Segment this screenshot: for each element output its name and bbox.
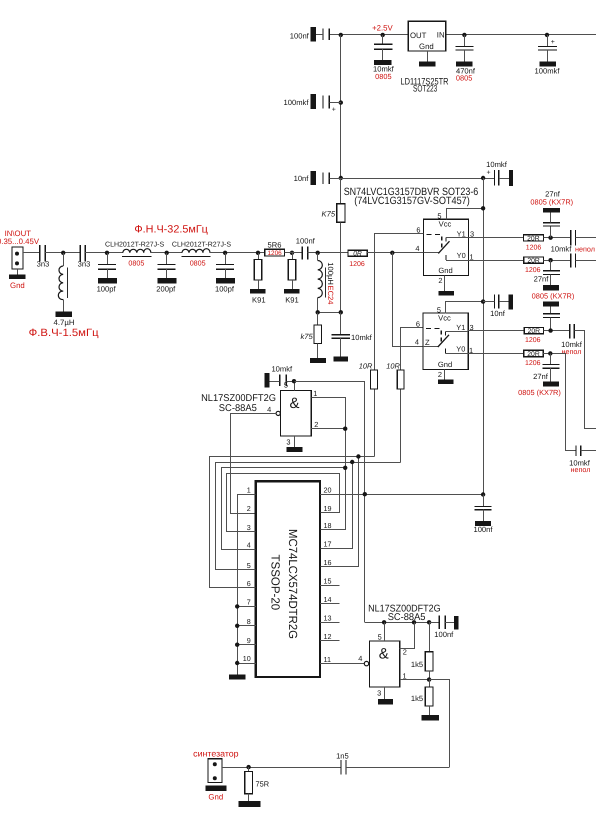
node 10nf C6 tap / Vcc rail2 [339, 176, 343, 180]
svg-text:Z: Z [425, 338, 430, 347]
svg-text:1206: 1206 [349, 261, 365, 268]
svg-text:4: 4 [415, 338, 419, 347]
wire Y1 line C [468, 330, 524, 332]
svg-text:(74LVC1G3157GV-SOT457): (74LVC1G3157GV-SOT457) [354, 195, 470, 207]
resistor R12 20R 1206 line D [524, 350, 543, 356]
ground U5 [229, 674, 245, 679]
U5 pin20 Vcc wire [320, 494, 483, 496]
node line C [544, 330, 570, 332]
svg-text:4.7µH: 4.7µH [54, 318, 75, 327]
IC U2 mux 74LVC1G3157 upper [423, 219, 468, 275]
svg-text:CLH2012T-R27J-S: CLH2012T-R27J-S [172, 242, 231, 249]
node Vcc 100nf [481, 492, 485, 496]
ground L1 [56, 311, 72, 316]
inductor L1 4.7uH [63, 253, 65, 266]
capacitor C6 10nf [311, 171, 316, 185]
svg-text:SC-88A5: SC-88A5 [219, 403, 258, 414]
IC U5 MC74LCX574DTR2G TSSOP-20 [256, 481, 320, 677]
wire Y1 line A [469, 237, 524, 239]
ground U2 [444, 275, 446, 291]
svg-text:&: & [289, 395, 299, 412]
svg-text:Gnd: Gnd [419, 42, 434, 51]
wire Y0 line D [468, 353, 524, 355]
wire U4 Vcc to bus [295, 382, 365, 623]
svg-text:7: 7 [247, 598, 251, 607]
svg-text:K91: K91 [252, 295, 266, 304]
svg-text:TSSOP-20: TSSOP-20 [268, 555, 282, 611]
svg-text:3: 3 [247, 523, 251, 532]
svg-text:16: 16 [324, 558, 332, 567]
capacitor C16 27nf line A [550, 226, 552, 238]
U5 pin14 stub [320, 603, 339, 605]
svg-text:+: + [551, 39, 555, 46]
capacitor C25 100nf decoupling [483, 495, 485, 507]
ground U3 [444, 369, 446, 379]
capacitor C17 10mkf line A [570, 230, 572, 246]
wire U4 output to U5 pin2 [231, 414, 277, 514]
capacitor C1 100nf [311, 27, 316, 41]
svg-text:непол: непол [575, 244, 595, 253]
svg-text:100mkf: 100mkf [535, 66, 561, 75]
svg-text:10nf: 10nf [294, 174, 310, 183]
U6 pin4 output bubble [364, 661, 368, 665]
svg-text:17: 17 [324, 540, 332, 549]
wire U3 pin4 to common node [393, 253, 423, 347]
svg-text:непол: непол [562, 347, 582, 356]
svg-text:Vcc: Vcc [438, 314, 451, 323]
svg-text:100µH: 100µH [326, 262, 335, 285]
wire U6 Vcc rail [365, 622, 429, 624]
wire C1 node down to C2 node [340, 35, 342, 178]
node ring1 tap [356, 454, 360, 458]
node ring2 tap [350, 460, 354, 464]
node 470nf C4 tap [462, 33, 466, 37]
node R3 K91 tap [290, 251, 294, 255]
svg-text:0.35...0.45V: 0.35...0.45V [0, 237, 40, 246]
svg-text:20R: 20R [527, 351, 540, 358]
svg-text:27nf: 27nf [534, 275, 550, 284]
capacitor C21 10mkf line C [569, 324, 571, 338]
svg-text:K75: K75 [322, 210, 336, 219]
node 100mkf C5 tap [545, 33, 549, 37]
wire U2 pin5 Vcc [447, 209, 484, 220]
resistor R11 20R 1206 line C [524, 328, 543, 334]
svg-text:Y0: Y0 [457, 251, 466, 260]
resistor R6 0R 1206 [348, 250, 367, 256]
node bias right [339, 310, 343, 314]
svg-text:CLH2012T-R27J-S: CLH2012T-R27J-S [105, 242, 164, 249]
svg-text:100nf: 100nf [290, 31, 310, 40]
svg-text:1k5: 1k5 [411, 694, 423, 703]
capacitor C11 200pf [166, 253, 168, 265]
svg-text:5: 5 [284, 381, 288, 390]
svg-text:4: 4 [267, 405, 271, 414]
connector X1 IN/OUT [12, 247, 23, 269]
U5 pin15 stub [320, 585, 339, 587]
U5 pin1 OE wire to ground bus [238, 495, 256, 607]
svg-text:3n3: 3n3 [78, 260, 91, 269]
svg-text:Ф.Н.Ч-32.5мГц: Ф.Н.Ч-32.5мГц [134, 224, 208, 236]
svg-text:75R: 75R [256, 780, 270, 789]
wire vertical Vcc bus [483, 178, 485, 495]
svg-text:Y1: Y1 [457, 229, 466, 238]
wire C9 to L2 [85, 252, 123, 254]
node L4 tap [316, 251, 320, 255]
connector X2 synthesizer [208, 759, 222, 783]
svg-text:2: 2 [438, 370, 442, 379]
capacitor C9 3n3 [79, 245, 81, 261]
svg-text:Vcc: Vcc [439, 220, 452, 229]
svg-text:5: 5 [437, 211, 441, 220]
svg-text:10R: 10R [359, 361, 373, 370]
U6 pin2 wire [400, 623, 415, 649]
node line D [543, 353, 566, 355]
node mux common [390, 251, 394, 255]
svg-text:1206: 1206 [525, 360, 541, 367]
svg-text:14: 14 [324, 595, 332, 604]
svg-text:20: 20 [324, 485, 332, 494]
U4 pin4 output bubble [276, 411, 280, 415]
svg-text:20R: 20R [527, 235, 540, 242]
ring1 wire pin16 to pin6 and R7 [321, 457, 359, 567]
node rail2 / vertical Vcc bus [481, 176, 485, 180]
svg-text:OUT: OUT [410, 31, 427, 40]
svg-text:10mkf: 10mkf [486, 160, 508, 169]
node C26 tap [427, 620, 431, 624]
svg-text:1: 1 [313, 389, 317, 398]
U4 pin3 ground [294, 436, 296, 447]
U5 pin12 stub [320, 640, 339, 642]
svg-text:18: 18 [324, 521, 332, 530]
U6 pin5 stub [384, 622, 386, 641]
node 200pf C11 tap [165, 251, 169, 255]
node R2 K91 tap [256, 251, 260, 255]
ring3 wire pin18 to pin4 [321, 529, 346, 531]
node U6 pin5 tap [382, 620, 386, 624]
svg-text:Gnd: Gnd [438, 266, 452, 275]
wire +2.5V rail top [329, 34, 408, 36]
svg-text:4: 4 [358, 654, 362, 663]
svg-text:5: 5 [378, 632, 382, 641]
svg-text:+: + [486, 170, 490, 177]
svg-text:MC74LCX574DTR2G: MC74LCX574DTR2G [286, 529, 300, 639]
svg-text:10mkf: 10mkf [351, 333, 373, 342]
capacitor C4 470nf 0805 [464, 35, 466, 47]
svg-text:100mkf: 100mkf [284, 98, 310, 107]
svg-text:0805: 0805 [456, 74, 472, 83]
svg-text:Ф.В.Ч-1.5мГц: Ф.В.Ч-1.5мГц [29, 327, 99, 339]
svg-text:8: 8 [247, 617, 251, 626]
svg-text:2: 2 [438, 276, 442, 285]
U5 pin11 wire to U6 output [320, 663, 364, 665]
wire R1 to C13 [285, 252, 303, 254]
svg-text:0805 (KX7R): 0805 (KX7R) [530, 197, 573, 206]
regulator U1 LD1117S25TR [408, 21, 446, 51]
svg-text:K91: K91 [285, 295, 299, 304]
node pin20 Vcc bus [363, 492, 367, 496]
U5 pin13 stub [320, 622, 339, 624]
svg-text:Y1: Y1 [456, 323, 465, 332]
ground X1 [17, 269, 19, 274]
svg-text:0805: 0805 [190, 259, 206, 268]
U6 pin1 wire [400, 679, 429, 681]
svg-text:20R: 20R [527, 258, 540, 265]
IC U6 NAND NL17SZ00 lower [370, 641, 400, 687]
ground X2 [205, 785, 226, 791]
svg-text:3: 3 [377, 688, 381, 697]
svg-text:4: 4 [415, 244, 419, 253]
svg-text:13: 13 [324, 614, 332, 623]
inductor L4 100uH EC24 [317, 253, 319, 261]
svg-text:10nf: 10nf [490, 309, 506, 318]
U4 pin5 [294, 381, 296, 390]
wire Y0 line B [469, 260, 524, 262]
resistor R9 20R 1206 line A [523, 235, 543, 241]
svg-text:2: 2 [247, 504, 251, 513]
U3 internal switch [423, 346, 438, 348]
wire R7 to ring1 [374, 390, 376, 457]
svg-text:1: 1 [247, 486, 251, 495]
wire L3 to R1 [210, 252, 265, 254]
node R13 R14 junction [427, 677, 431, 681]
svg-text:1: 1 [469, 252, 473, 261]
wire X1 to C8 [23, 252, 40, 254]
wire 0R to U2 pin4 [367, 252, 423, 254]
resistor R14 1k5 lower [429, 680, 431, 688]
svg-text:9: 9 [247, 636, 251, 645]
capacitor C7 10mkf electrolytic on rail2 [493, 170, 495, 185]
node +2.5V rail / 100nf C1 [339, 33, 343, 37]
svg-text:10: 10 [243, 654, 251, 663]
U2 internal select dashes [427, 234, 442, 236]
resistor R10 20R 1206 line B [524, 257, 544, 263]
svg-text:100pf: 100pf [215, 284, 235, 293]
U5 pin8 wire [237, 625, 256, 627]
svg-text:1206: 1206 [267, 250, 282, 257]
svg-text:0805: 0805 [128, 259, 144, 268]
wire Vcc rail2 [341, 178, 495, 180]
svg-text:100nf: 100nf [434, 630, 454, 639]
capacitor C3 10mkf 0805 [382, 35, 384, 44]
wire C13 to 0R [308, 252, 348, 254]
svg-text:Gnd: Gnd [10, 281, 25, 290]
U5 pin10 wire [237, 663, 256, 665]
node 10mkf C3 tap [381, 33, 385, 37]
svg-text:1: 1 [402, 672, 406, 681]
wire line C exit [575, 331, 596, 429]
svg-text:15: 15 [324, 577, 332, 586]
capacitor C22 27nf line D [550, 353, 552, 364]
svg-text:Y0: Y0 [456, 345, 465, 354]
wire L2 to L3 [151, 252, 182, 254]
U5 pin9 wire [237, 644, 256, 646]
node line A [544, 237, 571, 239]
resistor R2 K91 [258, 253, 260, 260]
wire C8 to node L1 [45, 252, 80, 254]
wire U3 pin5 Vcc [446, 302, 484, 314]
node line B [544, 260, 571, 262]
wire U2 pin6 select down [375, 234, 424, 371]
svg-text:IN: IN [437, 31, 445, 40]
svg-text:+: + [332, 107, 336, 114]
capacitor C15 10nf at U3 Vcc [493, 294, 495, 308]
svg-text:11: 11 [324, 655, 331, 664]
svg-text:20R: 20R [528, 328, 541, 335]
wire U3 pin6 select down [401, 328, 423, 371]
svg-text:EC24: EC24 [326, 286, 335, 305]
U4 pin2 wire [311, 428, 345, 430]
svg-text:0805 (KX7R): 0805 (KX7R) [532, 292, 575, 301]
resistor R15 75R [248, 767, 250, 771]
svg-text:10mkf: 10mkf [271, 365, 293, 374]
svg-text:27nf: 27nf [533, 372, 549, 381]
node 100mkf C2 tap [339, 100, 343, 104]
wire R8 to ring2 [400, 390, 402, 463]
svg-text:12: 12 [324, 632, 332, 641]
resistor R13 1k5 upper [429, 622, 431, 652]
wire line D down [566, 354, 577, 451]
svg-text:непол: непол [571, 465, 591, 474]
wire X2 to C27 [222, 767, 341, 769]
U6 pin3 ground [384, 687, 386, 699]
resistor R4 K75 bias upper [340, 178, 342, 204]
svg-text:синтезатор: синтезатор [193, 748, 239, 758]
capacitor C2 100mkf [311, 94, 316, 109]
IC U4 NAND NL17SZ00 upper [280, 391, 311, 437]
svg-text:2: 2 [314, 420, 318, 429]
svg-text:+2.5V: +2.5V [372, 24, 393, 33]
svg-text:3n3: 3n3 [37, 259, 50, 268]
svg-text:1206: 1206 [526, 244, 542, 251]
capacitor C14 10mkf bias [340, 312, 342, 334]
svg-text:100nf: 100nf [296, 237, 316, 246]
svg-text:k75: k75 [300, 332, 313, 341]
svg-text:200pf: 200pf [156, 284, 176, 293]
capacitor C19 10mkf line B [570, 253, 572, 267]
wire C27 to divider [346, 767, 449, 769]
capacitor C12 100pf [225, 253, 227, 265]
U3 internal select dashes [426, 327, 441, 329]
node ring3 tap [343, 466, 347, 470]
inductor L2 [123, 249, 151, 253]
svg-text:1n5: 1n5 [336, 751, 349, 760]
capacitor C18 27nf line B [550, 260, 552, 271]
svg-text:1k5: 1k5 [411, 660, 423, 669]
svg-text:10mkf: 10mkf [551, 245, 573, 254]
svg-text:0805: 0805 [375, 72, 391, 81]
svg-text:SOT223: SOT223 [413, 83, 437, 94]
U4 pin1 wire [312, 398, 346, 530]
capacitor C26 100nf [429, 622, 439, 624]
node U3 Vcc on bus [481, 299, 485, 303]
node U2 Vcc on bus [481, 206, 485, 210]
svg-text:19: 19 [324, 504, 332, 513]
node U6 pin2 tap [412, 620, 416, 624]
capacitor C20 27nf line C [543, 302, 559, 307]
node L1 tap [61, 251, 65, 255]
svg-text:100nf: 100nf [473, 525, 493, 534]
svg-text:100pf: 100pf [97, 284, 117, 293]
resistor R3 K91 [292, 253, 294, 260]
svg-text:&: & [379, 645, 389, 662]
wire bias junction [318, 312, 341, 314]
svg-text:3: 3 [286, 437, 290, 446]
capacitor C8 3n3 [39, 245, 41, 261]
ring2 wire pin17 to pin5 and R8 [321, 463, 353, 549]
svg-text:5R6: 5R6 [268, 240, 282, 249]
svg-text:SC-88A5: SC-88A5 [388, 612, 426, 623]
svg-text:3: 3 [470, 229, 474, 238]
svg-text:5: 5 [437, 305, 441, 314]
svg-text:1206: 1206 [525, 337, 541, 344]
resistor R5 k75 bias lower [317, 312, 319, 325]
U5 ground bus pins 7-10 [237, 606, 239, 674]
U2 internal switch [423, 252, 438, 254]
node 100pf C10 tap [105, 251, 109, 255]
ground U1 [427, 51, 429, 62]
svg-text:4: 4 [247, 541, 251, 550]
ring4 wire pin19 to pin3 [227, 474, 340, 532]
svg-text:2: 2 [403, 648, 407, 657]
capacitor C5 100mkf [547, 35, 549, 47]
svg-text:0805 (KX7R): 0805 (KX7R) [518, 388, 561, 397]
svg-text:0R: 0R [353, 251, 362, 258]
svg-text:1206: 1206 [525, 267, 541, 274]
capacitor C10 100pf [107, 253, 109, 265]
node bias left [316, 310, 320, 314]
node R15 tap [246, 765, 250, 769]
svg-text:6: 6 [247, 579, 251, 588]
svg-text:Gnd: Gnd [208, 792, 223, 801]
node 100pf C12 tap [223, 251, 227, 255]
wire divider to input line [430, 680, 450, 768]
U5 pin7 wire [237, 606, 256, 608]
svg-text:5: 5 [247, 561, 251, 570]
capacitor C23 10mkf line D [575, 445, 577, 456]
svg-text:10R: 10R [386, 361, 400, 370]
svg-text:Gnd: Gnd [438, 360, 452, 369]
inductor L3 [182, 249, 210, 253]
IC U3 mux 74LVC1G3157 lower [423, 313, 468, 369]
